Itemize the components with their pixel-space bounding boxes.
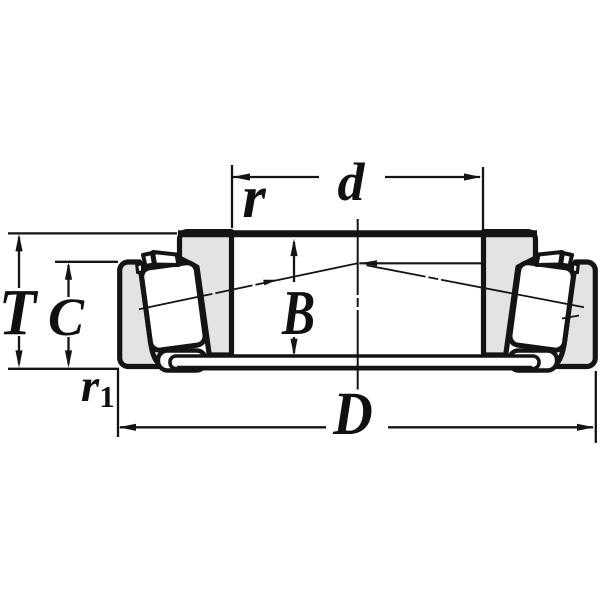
inner ring (cone) left section, gray: [180, 232, 232, 355]
pressure line left diagonal: [139, 263, 358, 309]
extension line: D right vertical: [595, 371, 597, 443]
outer ring (cup) left section, gray: [120, 262, 166, 367]
top face thick band of inner rings: [178, 230, 537, 237]
roller axis tick right: [562, 316, 579, 319]
extension line: d right (bore): [482, 167, 484, 230]
vertical center line (axis): [357, 219, 359, 390]
left half of bearing section (mirrored for right half): [120, 232, 232, 371]
tapered roller (left), white rounded rect rotated: [141, 262, 206, 352]
extension line: cup top face (C top): [55, 261, 118, 263]
svg-text:1: 1: [99, 379, 115, 414]
svg-text:T: T: [0, 275, 38, 349]
right half (mirror): [484, 232, 596, 371]
svg-text:C: C: [48, 287, 85, 347]
dimension T vertical line: [18, 237, 20, 288]
svg-text:r: r: [81, 360, 100, 412]
svg-text:B: B: [281, 278, 315, 348]
dimension B vertical line: [293, 242, 295, 282]
svg-text:r: r: [242, 164, 266, 230]
cage piece small (left): [143, 253, 154, 266]
extension line: r1 / D left vertical: [117, 368, 119, 437]
dimension C vertical line: [67, 265, 69, 297]
arrowhead on left diagonal: [263, 277, 277, 285]
extension line: bottom face: [8, 368, 119, 370]
svg-text:d: d: [338, 152, 366, 212]
svg-text:D: D: [332, 379, 373, 447]
cage piece large (left): [153, 252, 179, 265]
inner ring front-face slab across bottom: [170, 356, 539, 369]
dimension d horizontal line: [233, 176, 319, 178]
cage bottom hook piece: [158, 351, 206, 371]
cage tiny corner piece (left): [137, 263, 143, 272]
pressure line right diagonal: [367, 265, 585, 307]
extension line: top face (T top): [8, 232, 177, 234]
slab thick bottom edge: [177, 366, 532, 371]
extension line: d left (bore): [231, 165, 233, 228]
dimension D horizontal line: [120, 426, 326, 428]
apex horizontal line with arrow at axis: [359, 262, 483, 264]
